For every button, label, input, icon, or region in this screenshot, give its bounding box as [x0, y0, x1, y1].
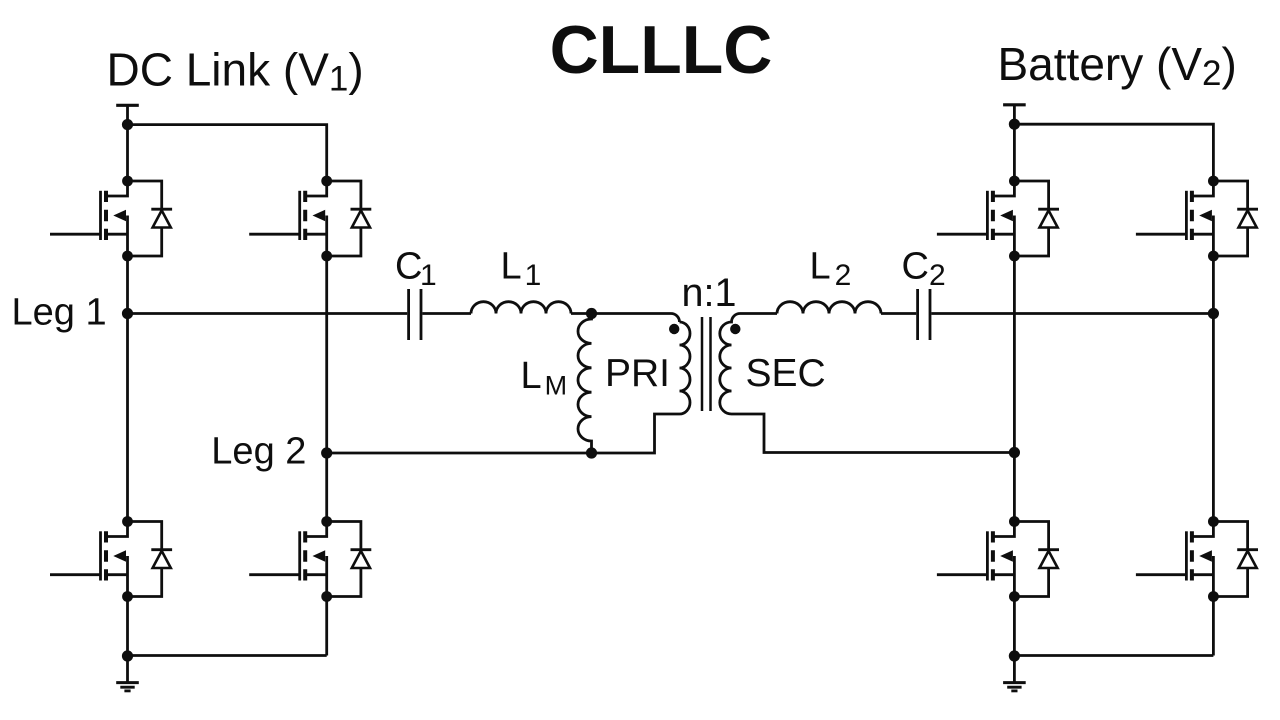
svg-text:LM: LM [521, 355, 568, 400]
svg-text:Battery (V2): Battery (V2) [998, 38, 1237, 93]
svg-text:DC Link (V1): DC Link (V1) [107, 43, 364, 98]
svg-text:C1: C1 [395, 246, 437, 293]
svg-text:CLLLC: CLLLC [550, 12, 773, 88]
svg-text:SEC: SEC [746, 352, 826, 395]
svg-text:PRI: PRI [605, 352, 670, 395]
svg-text:C2: C2 [902, 246, 946, 293]
svg-text:Leg 1: Leg 1 [12, 292, 107, 334]
svg-text:L1: L1 [501, 246, 542, 293]
svg-text:n:1: n:1 [682, 271, 737, 315]
svg-text:L2: L2 [810, 246, 852, 293]
svg-text:Leg 2: Leg 2 [211, 430, 306, 472]
